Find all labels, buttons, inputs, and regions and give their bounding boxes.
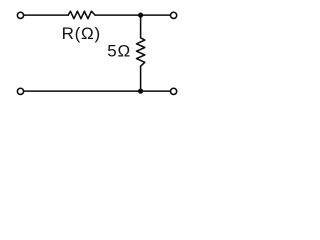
resistor R1 zigzag (68, 11, 95, 19)
svg-text:5Ω: 5Ω (107, 42, 131, 61)
terminal bottom-left (17, 88, 23, 94)
node junction top (138, 13, 143, 18)
terminal top-right (171, 12, 177, 18)
wire vertical upper (140, 15, 142, 38)
terminal bottom-right (171, 88, 177, 94)
terminal top-left (17, 12, 23, 18)
wire top-right (141, 14, 170, 16)
svg-text:R(Ω): R(Ω) (62, 24, 101, 43)
wire top-left (24, 14, 68, 16)
wire vertical lower (140, 66, 142, 91)
wire top-middle (95, 14, 141, 16)
wire bottom (24, 90, 170, 92)
resistor R2 vertical zigzag (137, 38, 145, 66)
node junction bottom (138, 89, 143, 94)
